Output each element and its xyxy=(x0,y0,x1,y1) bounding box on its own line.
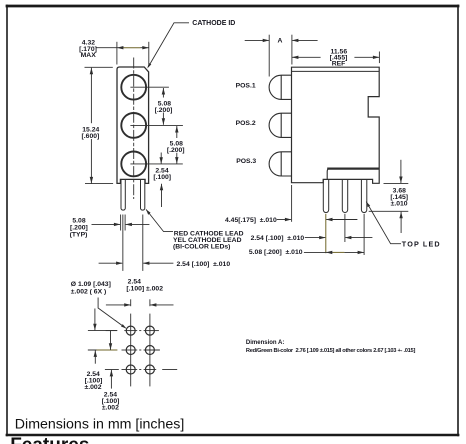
side lead 1 centerline extension xyxy=(325,214,327,253)
LED lens circle POS.3 xyxy=(121,152,146,177)
LED dome POS.1 profile xyxy=(269,75,291,99)
svg-text:±.002: ±.002 xyxy=(102,405,119,412)
svg-text:2.54 [.100] ±.010: 2.54 [.100] ±.010 xyxy=(177,261,231,268)
dimension 15.24 bottom extension line xyxy=(85,183,113,185)
svg-text:Ø 1.09 [.043]: Ø 1.09 [.043] xyxy=(71,281,111,288)
row 1 centerline segments xyxy=(106,330,118,332)
svg-text:[.200]: [.200] xyxy=(155,107,173,114)
dimension 3.68 bottom extension line xyxy=(369,210,409,212)
svg-text:REF: REF xyxy=(332,61,346,68)
dimension A right line xyxy=(292,39,317,41)
dimension 11.56 right arrowhead xyxy=(373,56,380,59)
dimension 15.24 top extension line xyxy=(85,66,113,68)
dimension A left arrowhead xyxy=(263,39,270,42)
svg-text:±.002: ±.002 xyxy=(85,384,102,391)
dimension row1-row2 upper line xyxy=(94,309,96,331)
dimension 3.68 lower arrowhead xyxy=(399,212,402,219)
dimension 2.54 holes right arrowhead xyxy=(150,303,157,306)
dimension A right arrowhead xyxy=(292,39,299,42)
svg-text:±.010: ±.010 xyxy=(391,201,408,208)
svg-text:2.54: 2.54 xyxy=(128,278,141,285)
dimension 2.54 lead spacing left arrowhead xyxy=(116,262,123,265)
hole pos1 cathode xyxy=(126,326,135,335)
dimension 5.08 B top arrowhead xyxy=(175,126,178,133)
dimension 3.68 upper arrowhead xyxy=(399,177,402,184)
cathode ID leader arrowhead xyxy=(147,63,151,69)
side body front face extension line xyxy=(291,185,293,222)
hole diameter leader line xyxy=(98,298,126,329)
dimension 4.32 left arrowhead xyxy=(117,46,124,49)
row 3 centerline segments xyxy=(105,369,119,371)
svg-text:POS.2: POS.2 xyxy=(236,120,256,127)
side lead 3 outline xyxy=(361,179,366,212)
top LED leader line xyxy=(366,202,401,244)
hole pattern column 2 centerline xyxy=(149,299,151,306)
dimension 2.54 lead spacing right line xyxy=(143,262,173,264)
svg-text:(BI-COLOR LEDs): (BI-COLOR LEDs) xyxy=(173,244,230,251)
front lead 2 outline xyxy=(141,179,145,210)
side view body outline xyxy=(292,67,380,183)
side view top flange second line xyxy=(292,70,380,72)
row 3 right extension line xyxy=(162,369,177,371)
dimension 4.32 right arrowhead xyxy=(142,46,149,49)
dimension 15.24 line upper xyxy=(90,68,92,124)
svg-text:[.600]: [.600] xyxy=(82,133,100,140)
dimension 5.08 A bottom arrowhead xyxy=(162,118,165,125)
front view housing outline xyxy=(117,67,149,183)
svg-text:CATHODE ID: CATHODE ID xyxy=(192,20,235,27)
dimension 5.08 B line upper xyxy=(176,126,178,138)
front lead 1 left edge extension line xyxy=(120,215,122,231)
dimension 2.54 side right arrowhead xyxy=(345,236,352,239)
row 2 left extension duplicate xyxy=(88,349,97,351)
svg-text:(TYP): (TYP) xyxy=(70,232,88,239)
side view bottom step thick edge xyxy=(327,167,379,169)
LED dome POS.3 profile xyxy=(269,152,291,176)
svg-text:Red/Green Bi-color 2.76 [.109: Red/Green Bi-color 2.76 [.109 ±.015] all… xyxy=(246,348,416,354)
dimension 5.08 TYP right arrowhead xyxy=(125,223,131,226)
dimension 5.08 TYP right line xyxy=(126,223,150,225)
dimension A left line xyxy=(245,39,269,41)
svg-text:Dimensions in mm [inches]: Dimensions in mm [inches] xyxy=(15,417,185,433)
svg-text:POS.3: POS.3 xyxy=(236,158,256,165)
side lead 1 outline xyxy=(323,179,328,212)
svg-text:5.08: 5.08 xyxy=(72,217,85,224)
dimension 5.08 A line lower xyxy=(162,113,164,125)
dimension 5.08 TYP left line xyxy=(92,223,121,225)
dimension 2.54 lead spacing left line xyxy=(99,262,123,264)
dimension 4.45 left arrowhead xyxy=(285,218,292,221)
dimension 2.54 side right line xyxy=(345,237,372,239)
LED POS.1 horizontal centerline xyxy=(130,86,169,88)
side view step left edge xyxy=(327,169,329,180)
dimension 5.08 TYP left arrowhead xyxy=(114,223,121,226)
dimension 15.24 line lower xyxy=(90,139,92,183)
front lead 1 right edge extension line xyxy=(124,215,126,231)
LED lens circle POS.1 xyxy=(121,75,146,100)
svg-text:Features: Features xyxy=(10,435,89,444)
dimension 2.54 holes left line xyxy=(106,304,130,306)
dimension 4.32 line xyxy=(97,47,122,49)
dimension 3.68 top extension line xyxy=(384,182,409,184)
dimension 2.54 side left arrowhead xyxy=(319,236,326,239)
cathode ID leader line xyxy=(148,23,189,67)
front lead 1 centerline extension xyxy=(122,215,124,271)
side lead 2 outline xyxy=(342,179,347,212)
front lead 2 centerline extension xyxy=(142,215,144,271)
dimension 11.56 right extension line xyxy=(378,52,380,64)
dimension 2.54 holes right line xyxy=(150,304,173,306)
svg-text:4.45[.175] ±.010: 4.45[.175] ±.010 xyxy=(225,217,277,224)
svg-text:2.54 [.100] ±.010: 2.54 [.100] ±.010 xyxy=(251,235,305,242)
dimension row2-row3 lower line xyxy=(110,370,112,389)
dimension A left extension line xyxy=(268,35,270,77)
dimension 5.08 A line upper xyxy=(162,88,164,98)
cathode lead leader arrowhead xyxy=(146,209,151,214)
dimension row1-row2 lower line xyxy=(94,350,96,363)
LED POS.2 horizontal centerline xyxy=(130,124,183,126)
svg-text:A: A xyxy=(278,38,283,45)
dimension 4.32 right extension line xyxy=(148,42,150,64)
dimension 5.08 B bottom arrowhead xyxy=(175,157,178,164)
row 2 centerline segments xyxy=(88,349,97,351)
svg-text:[.200]: [.200] xyxy=(167,147,185,154)
side lead 2 centerline extension xyxy=(344,214,346,242)
dimension 2.54 front bottom arrowhead xyxy=(160,184,163,191)
svg-text:MAX: MAX xyxy=(81,52,97,59)
dimension 15.24 top arrowhead xyxy=(90,68,93,75)
dimension 4.32 left extension line xyxy=(116,42,118,65)
dimension 2.54 side left line xyxy=(305,237,326,239)
dimension 4.45 right line xyxy=(326,219,357,221)
dimension 11.56 left arrowhead xyxy=(292,56,299,59)
hole pos1 anode xyxy=(145,326,154,335)
dimension 4.45 right arrowhead xyxy=(326,218,333,221)
dimension 5.08 side leader line xyxy=(304,251,326,253)
svg-text:TOP LED: TOP LED xyxy=(402,240,441,249)
svg-text:[.100] ±.002: [.100] ±.002 xyxy=(126,286,163,293)
dimension 4.45 leader line xyxy=(277,219,291,221)
dimension 2.54 front top arrowhead xyxy=(160,157,163,164)
dimension 3.68 upper line xyxy=(400,160,402,183)
dimension 2.54 holes left arrowhead xyxy=(124,303,131,306)
hole pos2 cathode xyxy=(126,346,135,355)
dimension row1-row2 upper arrowhead xyxy=(93,324,96,331)
dimension 5.08 side span line xyxy=(326,251,333,253)
dimension 5.08 side right arrowhead xyxy=(358,251,365,254)
top LED leader arrowhead xyxy=(366,202,370,208)
row 1 left extension line xyxy=(88,330,117,332)
side lead 3 centerline extension xyxy=(363,214,365,255)
dimension 2.54 lead spacing right arrowhead xyxy=(143,262,150,265)
front view vertical centerline xyxy=(133,58,135,200)
dimension 11.56 left line xyxy=(292,56,321,58)
svg-text:POS.1: POS.1 xyxy=(236,82,256,89)
front lead 1 outline xyxy=(121,179,125,210)
dimension row2-row3 lower arrowhead xyxy=(110,370,113,377)
svg-text:5.08 [.200] ±.010: 5.08 [.200] ±.010 xyxy=(249,249,303,256)
svg-text:[.100]: [.100] xyxy=(153,174,171,181)
LED POS.3 horizontal centerline xyxy=(130,163,182,165)
dimension 2.54 front line lower xyxy=(161,184,163,207)
dimension row2-row3 upper arrowhead xyxy=(109,343,112,350)
dimension row2-row3 upper line xyxy=(110,331,112,350)
cathode lead leader line xyxy=(146,209,173,231)
hole pos3 cathode xyxy=(126,365,135,374)
dimension 5.08 B line lower xyxy=(176,153,178,164)
hole diameter leader arrowhead xyxy=(121,324,126,328)
dimension 15.24 bottom arrowhead xyxy=(90,177,93,184)
svg-text:±.002 ( 6X ): ±.002 ( 6X ) xyxy=(71,288,106,295)
dimension 2.54 front line upper xyxy=(160,153,162,164)
dimension 5.08 A top arrowhead xyxy=(162,88,165,95)
hole pos3 anode xyxy=(145,365,154,374)
svg-text:Dimension A:: Dimension A: xyxy=(246,340,284,346)
LED dome POS.2 profile xyxy=(269,113,292,137)
dimension A right extension line xyxy=(291,35,293,65)
hole pattern column 1 centerline xyxy=(130,299,132,306)
drawing border frame xyxy=(6,5,460,8)
hole pos2 anode xyxy=(145,346,154,355)
dimension 5.08 side left arrowhead xyxy=(326,251,333,254)
LED lens circle POS.2 xyxy=(121,113,146,138)
dimension row1-row2 lower arrowhead xyxy=(94,350,97,357)
dimension 11.56 right line xyxy=(354,56,379,58)
dimension 3.68 lower line xyxy=(400,212,402,233)
